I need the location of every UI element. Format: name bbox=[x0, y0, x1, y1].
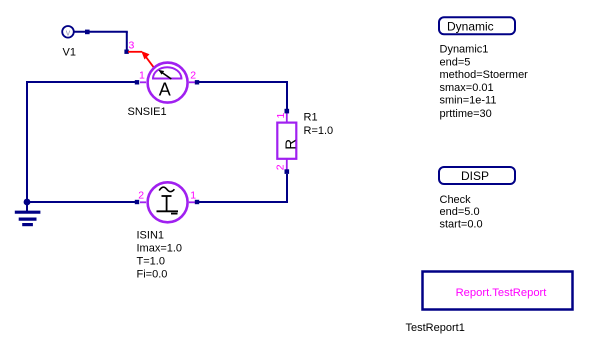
svg-text:end=5.0: end=5.0 bbox=[440, 206, 480, 218]
svg-text:1: 1 bbox=[139, 70, 145, 82]
svg-text:2: 2 bbox=[138, 189, 144, 201]
Dynamic analysis box bbox=[439, 17, 515, 34]
current source ISIN1 bbox=[140, 182, 196, 222]
resistor pin 1 terminal bbox=[285, 109, 290, 114]
svg-text:prttime=30: prttime=30 bbox=[440, 108, 492, 120]
ammeter SNSIE1 bbox=[140, 63, 196, 103]
svg-text:R: R bbox=[282, 139, 299, 150]
svg-text:end=5: end=5 bbox=[440, 56, 471, 68]
svg-text:start=0.0: start=0.0 bbox=[440, 218, 483, 230]
junction dot bbox=[24, 199, 31, 206]
resistor pin 2 terminal bbox=[285, 169, 290, 174]
wire bbox=[286, 174, 288, 203]
svg-text:smax=0.01: smax=0.01 bbox=[440, 82, 494, 94]
svg-text:DISP: DISP bbox=[461, 169, 489, 183]
svg-text:ISIN1: ISIN1 bbox=[137, 230, 165, 242]
wire bbox=[74, 31, 128, 33]
DISP box bbox=[439, 167, 515, 184]
svg-text:T=1.0: T=1.0 bbox=[137, 256, 165, 268]
source pin 2 terminal bbox=[135, 200, 139, 204]
svg-text:3: 3 bbox=[129, 40, 135, 52]
svg-text:TestReport1: TestReport1 bbox=[406, 322, 465, 334]
Dynamic1 parameter text bbox=[440, 44, 529, 121]
ground bbox=[15, 202, 41, 225]
node 3 terminal bbox=[124, 50, 128, 54]
svg-text:A: A bbox=[159, 79, 171, 99]
Report.TestReport box bbox=[423, 272, 573, 310]
svg-text:2: 2 bbox=[275, 164, 287, 170]
svg-text:SNSIE1: SNSIE1 bbox=[128, 106, 167, 118]
source pin 1 terminal bbox=[195, 200, 199, 204]
wire bbox=[199, 201, 288, 203]
wire bbox=[286, 81, 288, 109]
svg-text:V1: V1 bbox=[63, 47, 76, 59]
svg-text:Imax=1.0: Imax=1.0 bbox=[137, 242, 183, 254]
svg-text:Dynamic1: Dynamic1 bbox=[440, 44, 489, 56]
wire bbox=[26, 81, 28, 203]
wire bbox=[27, 201, 135, 203]
svg-text:Report.TestReport: Report.TestReport bbox=[456, 287, 548, 299]
DISP parameter text bbox=[440, 194, 483, 231]
wire bbox=[27, 81, 135, 83]
svg-text:1: 1 bbox=[275, 113, 287, 119]
svg-text:smin=1e-11: smin=1e-11 bbox=[440, 95, 497, 107]
svg-text:Check: Check bbox=[440, 194, 472, 206]
svg-text:method=Stoermer: method=Stoermer bbox=[440, 69, 529, 81]
svg-text:1: 1 bbox=[190, 189, 196, 201]
svg-text:v: v bbox=[66, 28, 71, 38]
voltage probe V1 bbox=[62, 26, 89, 38]
resistor R1 bbox=[277, 113, 299, 170]
wire bbox=[126, 32, 128, 50]
svg-text:R1: R1 bbox=[304, 111, 318, 123]
sense arrow (red) bbox=[128, 51, 155, 69]
svg-text:Fi=0.0: Fi=0.0 bbox=[137, 269, 168, 281]
svg-text:R=1.0: R=1.0 bbox=[304, 125, 334, 137]
ammeter pin 1 terminal bbox=[135, 80, 139, 84]
svg-text:Dynamic: Dynamic bbox=[447, 19, 494, 33]
ammeter pin 2 terminal bbox=[195, 80, 199, 84]
wire bbox=[199, 81, 288, 83]
svg-text:2: 2 bbox=[190, 70, 196, 82]
